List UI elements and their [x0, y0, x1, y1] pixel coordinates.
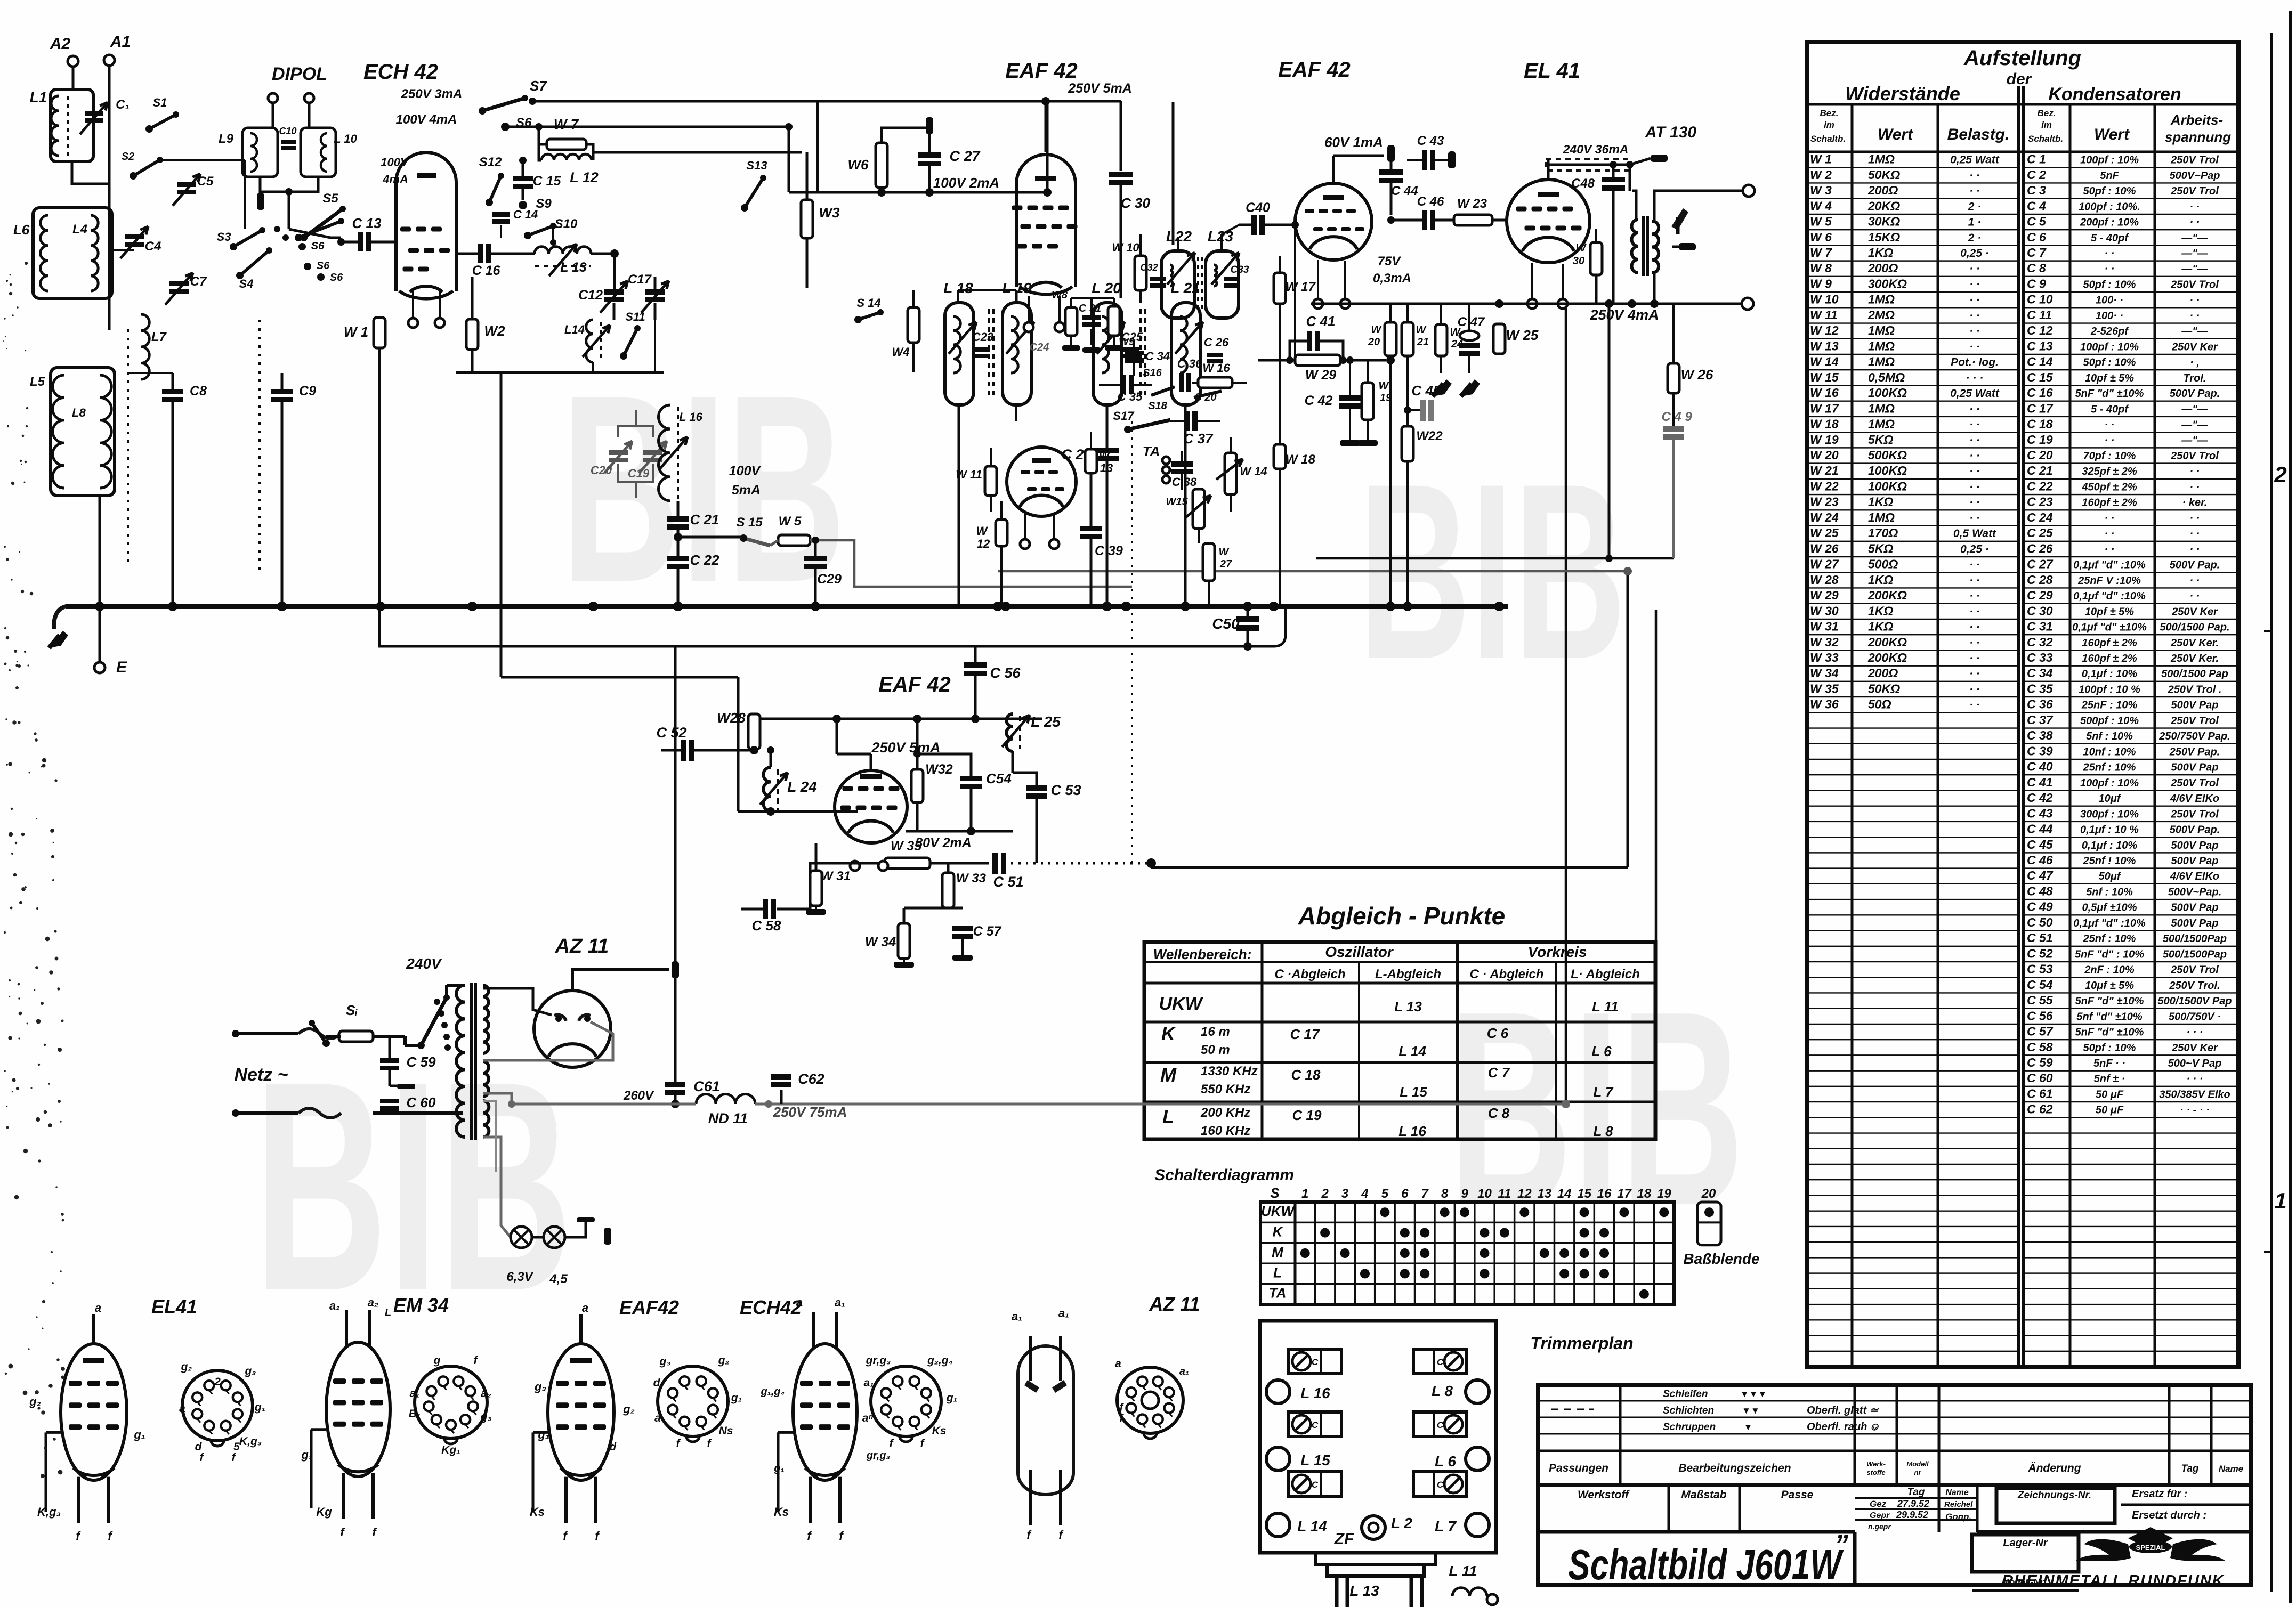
svg-text:EM 34: EM 34	[393, 1294, 449, 1316]
svg-text:0,25 Watt: 0,25 Watt	[1950, 154, 2000, 166]
svg-text:W8: W8	[1052, 289, 1068, 301]
wire	[957, 290, 959, 303]
svg-text:50 μF: 50 μF	[2096, 1089, 2124, 1100]
trimmer C4	[125, 234, 144, 239]
wire anode rail	[754, 718, 1042, 720]
svg-text:500/1500 Pap: 500/1500 Pap	[2161, 668, 2228, 680]
dial lamp 2	[544, 1227, 565, 1248]
svg-text:W 33: W 33	[1810, 651, 1839, 664]
svg-text:10pf ± 5%: 10pf ± 5%	[2085, 372, 2134, 384]
svg-text:C 37: C 37	[1184, 431, 1214, 447]
svg-text:ND 11: ND 11	[708, 1110, 748, 1126]
svg-text:· ·: · ·	[1969, 465, 1980, 477]
terminal blob	[926, 117, 933, 134]
svg-text:5mA: 5mA	[732, 483, 761, 498]
svg-text:500/750V ·: 500/750V ·	[2169, 1011, 2221, 1022]
svg-text:L8: L8	[72, 406, 86, 419]
svg-text:7: 7	[1421, 1187, 1429, 1201]
svg-text:1MΩ: 1MΩ	[1868, 293, 1895, 306]
trimmer C5	[177, 182, 196, 187]
tube pins	[1313, 299, 1323, 309]
svg-text:4/6V ElKo: 4/6V ElKo	[2170, 871, 2219, 882]
svg-text:Schaltb.: Schaltb.	[1810, 134, 1846, 144]
svg-text:0,3mA: 0,3mA	[1373, 271, 1411, 286]
svg-text:C24: C24	[1030, 342, 1049, 353]
svg-text:ECH 42: ECH 42	[363, 60, 438, 84]
svg-text:50μf: 50μf	[2099, 871, 2122, 882]
svg-text:C · Abgleich: C · Abgleich	[1469, 967, 1543, 981]
resistor W24	[1435, 324, 1447, 356]
svg-text:W 17: W 17	[1810, 401, 1839, 415]
svg-text:0,25 ·: 0,25 ·	[1960, 247, 1989, 259]
svg-text:10pf ± 5%: 10pf ± 5%	[2085, 606, 2134, 618]
svg-text:W 13: W 13	[1810, 339, 1839, 353]
svg-text:80V 2mA: 80V 2mA	[915, 835, 972, 850]
svg-text:100· ·: 100· ·	[2096, 310, 2123, 322]
trimmer C7	[169, 281, 189, 286]
svg-text:L 20: L 20	[1092, 280, 1121, 296]
svg-text:W 33: W 33	[956, 871, 987, 886]
wire	[72, 161, 109, 184]
svg-text:g₂,g₄: g₂,g₄	[927, 1354, 953, 1367]
feedback line	[1316, 557, 1674, 560]
capacitor C37	[1184, 411, 1190, 431]
svg-text:9: 9	[1461, 1187, 1468, 1201]
svg-text:L 7: L 7	[1593, 1084, 1614, 1100]
svg-text:· ·: · ·	[2105, 419, 2115, 431]
terminal B+ blob	[672, 961, 679, 978]
switch S2	[130, 172, 137, 180]
capacitor C52	[681, 740, 686, 761]
svg-text:500V~Pap.: 500V~Pap.	[2168, 886, 2222, 898]
svg-text:Tag: Tag	[2181, 1463, 2198, 1474]
svg-text:C 37: C 37	[2027, 713, 2054, 727]
terminal blob	[257, 193, 264, 210]
coupling core dashed	[988, 309, 990, 400]
svg-text:29.9.52: 29.9.52	[1896, 1509, 1928, 1520]
svg-text:500V Pap.: 500V Pap.	[2170, 388, 2220, 400]
dipole terminal	[304, 93, 314, 103]
capacitor C36	[1179, 373, 1184, 392]
svg-text:L: L	[385, 1307, 391, 1319]
svg-text:1KΩ: 1KΩ	[1868, 495, 1893, 509]
svg-text:SPEZIAL: SPEZIAL	[2136, 1544, 2165, 1552]
svg-text:50Ω: 50Ω	[1868, 697, 1891, 711]
svg-text:g₁: g₁	[731, 1392, 742, 1404]
svg-text:C 21: C 21	[690, 512, 719, 527]
svg-text:S18: S18	[1148, 400, 1167, 412]
contacts S6	[298, 243, 306, 250]
ZF trimmer	[1362, 1516, 1385, 1539]
svg-text:1: 1	[2274, 1188, 2286, 1213]
svg-text:C 7: C 7	[1488, 1065, 1510, 1081]
switch S1 cluster	[295, 234, 302, 241]
svg-text:C 44: C 44	[1391, 184, 1418, 198]
resistor W10	[1135, 256, 1146, 290]
svg-text:W 27: W 27	[1810, 557, 1839, 571]
svg-text:W 1: W 1	[1810, 152, 1832, 166]
svg-text:250V Trol: 250V Trol	[2170, 279, 2219, 290]
svg-text:g₂: g₂	[29, 1395, 41, 1408]
svg-text:250V Trol.: 250V Trol.	[2169, 980, 2220, 992]
svg-text:BIB: BIB	[561, 340, 846, 638]
svg-text:W 14: W 14	[1810, 355, 1839, 369]
wire oscillator loop	[591, 253, 615, 255]
svg-text:70pf : 10%: 70pf : 10%	[2083, 450, 2136, 462]
wire choke feed gray	[483, 1093, 696, 1104]
svg-text:W 3: W 3	[1810, 183, 1832, 197]
svg-text:C4: C4	[145, 239, 161, 254]
svg-text:500/1500 Pap.: 500/1500 Pap.	[2160, 622, 2229, 634]
svg-text:C 3: C 3	[2027, 183, 2046, 197]
svg-text:Passungen: Passungen	[1549, 1462, 1608, 1474]
svg-text:C 35: C 35	[2027, 681, 2054, 695]
svg-text:250V Ker.: 250V Ker.	[2170, 637, 2219, 649]
svg-text:S 15: S 15	[736, 515, 763, 530]
svg-text:S5: S5	[322, 191, 338, 206]
svg-text:· ·: · ·	[1969, 683, 1980, 695]
IF transformer L20	[1093, 303, 1122, 405]
svg-text:C 23: C 23	[2027, 495, 2053, 509]
capacitor C45 gray	[1420, 400, 1426, 421]
potentiometer W14	[1225, 453, 1236, 494]
svg-text:S6: S6	[317, 260, 330, 272]
svg-text:C19: C19	[628, 467, 650, 480]
svg-text:AZ 11: AZ 11	[1149, 1293, 1200, 1315]
resistor W31	[810, 871, 822, 906]
svg-text:16: 16	[1597, 1187, 1612, 1201]
power transformer T primary	[456, 985, 465, 1137]
svg-text:500V Pap: 500V Pap	[2171, 918, 2219, 929]
svg-text:W 19: W 19	[1810, 433, 1839, 447]
dial lamp 1	[511, 1227, 532, 1248]
svg-text:L 11: L 11	[1592, 999, 1619, 1014]
svg-text:5nF: 5nF	[2100, 170, 2119, 182]
svg-text:g₁: g₁	[773, 1463, 784, 1474]
svg-text:W 23: W 23	[1810, 495, 1839, 509]
svg-text:200 KHz: 200 KHz	[1200, 1106, 1250, 1120]
svg-text:C 58: C 58	[752, 918, 781, 934]
resistor W33	[942, 873, 954, 908]
svg-text:60V 1mA: 60V 1mA	[1324, 134, 1383, 150]
resistor W30	[1590, 242, 1602, 275]
capacitor C38	[1171, 461, 1193, 467]
resistor W17	[1274, 273, 1286, 304]
svg-text:21: 21	[1417, 336, 1429, 348]
svg-text:200KΩ: 200KΩ	[1867, 588, 1907, 602]
capacitor C44	[1390, 162, 1393, 169]
capacitor C53	[1026, 785, 1047, 791]
ganged dashed line TA	[1131, 421, 1133, 869]
power transformer core	[470, 983, 473, 1140]
svg-text:L 13: L 13	[1349, 1582, 1379, 1599]
wire leg right	[1410, 1576, 1413, 1607]
svg-text:· ·: · ·	[2190, 217, 2200, 229]
svg-text:C 47: C 47	[2027, 869, 2054, 882]
svg-text:5nf "d" ±10%: 5nf "d" ±10%	[2076, 1011, 2143, 1022]
svg-text:a₁: a₁	[863, 1377, 874, 1389]
svg-text:C 20: C 20	[2027, 448, 2053, 462]
capacitor C41	[1307, 331, 1312, 351]
tube pins	[850, 861, 860, 871]
svg-text:1KΩ: 1KΩ	[1868, 246, 1893, 259]
svg-text:gr,g₃: gr,g₃	[866, 1450, 891, 1462]
svg-text:Belastg.: Belastg.	[1947, 126, 2010, 143]
svg-text:4: 4	[1361, 1187, 1368, 1201]
chassis ground lamp	[577, 1217, 595, 1222]
svg-text:· ·: · ·	[2190, 543, 2200, 555]
svg-text:11: 11	[1498, 1187, 1511, 1201]
svg-text:0,1μf "d" :10%: 0,1μf "d" :10%	[2073, 590, 2146, 602]
capacitor C28	[1106, 405, 1109, 448]
trimmer C32	[1150, 277, 1166, 281]
svg-text:W 2: W 2	[1810, 168, 1832, 182]
svg-text:250V Ker.: 250V Ker.	[2170, 653, 2219, 664]
svg-text:S13: S13	[746, 159, 767, 172]
svg-text:0,1μf : 10%: 0,1μf : 10%	[2082, 840, 2138, 851]
svg-text:W32: W32	[925, 762, 953, 777]
svg-text:AZ 11: AZ 11	[555, 935, 609, 957]
svg-text:W 30: W 30	[1810, 604, 1839, 618]
svg-text:200Ω: 200Ω	[1867, 666, 1898, 680]
svg-text:W 34: W 34	[1810, 666, 1839, 680]
svg-text:▼: ▼	[1744, 1422, 1753, 1432]
wire	[1653, 273, 1656, 304]
wire S5 to C13	[300, 234, 308, 241]
svg-text:S9: S9	[536, 197, 552, 211]
svg-text:C 6: C 6	[1487, 1025, 1509, 1041]
svg-text:· ·: · ·	[1969, 434, 1980, 447]
svg-text:0,1μf "d" :10%: 0,1μf "d" :10%	[2073, 918, 2146, 929]
svg-text:C 22: C 22	[2027, 479, 2053, 493]
resistor W11	[985, 466, 997, 496]
capacitor C51	[992, 853, 998, 874]
svg-text:—"—: —"—	[2181, 326, 2208, 337]
svg-text:S11: S11	[625, 310, 645, 323]
oscillator bottom rail	[456, 371, 664, 374]
gray padder block C20 C19	[609, 450, 628, 455]
svg-text:200KΩ: 200KΩ	[1867, 635, 1907, 649]
svg-text:160 KHz: 160 KHz	[1201, 1124, 1250, 1138]
svg-text:· ·: · ·	[2190, 310, 2200, 322]
tube ECH42	[396, 152, 456, 291]
tube socket AZ11 top view	[1117, 1367, 1183, 1433]
svg-text:g₁,g₄: g₁,g₄	[760, 1386, 785, 1398]
antenna terminal A1	[104, 55, 115, 66]
coil L7	[141, 314, 149, 379]
resistor W1 feed	[378, 348, 381, 646]
svg-text:C 25: C 25	[2027, 526, 2054, 540]
wire grid row	[738, 810, 858, 813]
resistor W2	[466, 319, 478, 350]
svg-text:L 13: L 13	[1394, 999, 1422, 1014]
switch S11	[620, 352, 627, 360]
tube EL41 side view	[61, 1344, 127, 1480]
svg-text:C 43: C 43	[2027, 806, 2053, 820]
wire	[1220, 234, 1223, 251]
coil L24	[770, 750, 772, 767]
svg-text:W 11: W 11	[1810, 308, 1838, 322]
svg-text:M: M	[1160, 1064, 1177, 1086]
svg-text:g₃: g₃	[480, 1411, 492, 1423]
resistor W27	[1203, 543, 1215, 581]
svg-text:Gepr: Gepr	[1870, 1511, 1890, 1520]
svg-text:500pf : 10%: 500pf : 10%	[2080, 715, 2139, 727]
svg-text:50pf : 10%: 50pf : 10%	[2083, 279, 2136, 290]
svg-text:C 53: C 53	[2027, 962, 2053, 976]
svg-text:C 61: C 61	[2027, 1086, 2053, 1100]
svg-text:d: d	[653, 1377, 661, 1389]
svg-text:W 31: W 31	[1810, 620, 1839, 634]
svg-text:n.gepr: n.gepr	[1868, 1522, 1891, 1531]
svg-text:im: im	[1824, 120, 1834, 130]
svg-text:450pf ± 2%: 450pf ± 2%	[2081, 481, 2137, 493]
capacitor C49 gray	[1663, 426, 1684, 432]
IF transformer L19	[1003, 303, 1031, 405]
svg-text:C: C	[1312, 1357, 1319, 1367]
svg-text:250V Trol: 250V Trol	[2170, 777, 2219, 789]
resistor W23	[1454, 215, 1492, 225]
svg-text:1330 KHz: 1330 KHz	[1201, 1064, 1258, 1078]
capacitor C14	[492, 212, 510, 217]
svg-text:W 5: W 5	[1810, 215, 1832, 229]
svg-text:C 21: C 21	[2027, 464, 2053, 477]
svg-text:W 28: W 28	[1810, 573, 1839, 587]
svg-text:C 52: C 52	[656, 725, 686, 741]
svg-text:15: 15	[1577, 1187, 1591, 1201]
wire audio line to output	[1151, 866, 1628, 869]
svg-text:L 15: L 15	[1400, 1084, 1427, 1100]
svg-text:1MΩ: 1MΩ	[1868, 339, 1895, 353]
svg-text:W 25: W 25	[1810, 526, 1839, 540]
svg-text:W 35: W 35	[891, 839, 922, 854]
wire grid link	[1015, 290, 1018, 303]
svg-text:Trimmerplan: Trimmerplan	[1530, 1334, 1633, 1353]
svg-text:g: g	[433, 1354, 441, 1367]
output transformer AT130	[1632, 220, 1639, 273]
capacitor C27	[928, 134, 931, 152]
wire leg L13	[1335, 1576, 1339, 1607]
svg-text:0,5μf ±10%: 0,5μf ±10%	[2082, 902, 2137, 914]
svg-text:1KΩ: 1KΩ	[1868, 604, 1893, 618]
svg-text:DIPOL: DIPOL	[272, 64, 327, 84]
svg-text:5nF · ·: 5nF · ·	[2093, 1058, 2125, 1069]
capacitor C47 elko	[1460, 331, 1479, 340]
svg-text:5nF "d" ±10%: 5nF "d" ±10%	[2075, 995, 2144, 1007]
sheet edge lines	[2270, 33, 2273, 1592]
svg-text:10nf : 10%: 10nf : 10%	[2083, 746, 2136, 758]
chassis arrow	[49, 631, 68, 648]
svg-text:· ker.: · ker.	[2182, 497, 2208, 509]
svg-text:5nF "d" ±10%: 5nF "d" ±10%	[2075, 1027, 2144, 1038]
svg-text:Ns: Ns	[719, 1425, 733, 1437]
trimmer C17 (left column)	[1288, 1472, 1341, 1496]
svg-text:C 4 9: C 4 9	[1661, 410, 1692, 424]
svg-text:2: 2	[2274, 462, 2286, 487]
svg-text:W 1: W 1	[344, 324, 368, 340]
svg-text:Oberfl. glatt ≃: Oberfl. glatt ≃	[1807, 1405, 1879, 1416]
svg-text:L 10: L 10	[334, 132, 357, 145]
svg-text:19: 19	[1657, 1187, 1671, 1201]
svg-text:a₂: a₂	[368, 1296, 379, 1309]
svg-text:W 26: W 26	[1681, 367, 1713, 383]
svg-text:M: M	[1272, 1244, 1284, 1260]
chassis bus line	[66, 604, 1508, 609]
svg-text:10μf ± 5%: 10μf ± 5%	[2085, 980, 2134, 992]
svg-text:W 18: W 18	[1286, 452, 1316, 467]
svg-text:—"—: —"—	[2181, 419, 2208, 431]
svg-text:Schruppen: Schruppen	[1663, 1422, 1716, 1433]
svg-text:W 29: W 29	[1810, 588, 1839, 602]
svg-text:L 16: L 16	[1398, 1123, 1426, 1139]
svg-text:C 44: C 44	[2027, 822, 2053, 836]
svg-text:27: 27	[1219, 558, 1232, 570]
coil L13	[535, 247, 591, 254]
coil hole L14	[1266, 1513, 1290, 1537]
svg-text:C61: C61	[693, 1078, 720, 1094]
svg-text:RHEINMETALL RUNDFUNK: RHEINMETALL RUNDFUNK	[2002, 1572, 2225, 1589]
resistor W22	[1402, 426, 1413, 461]
component table Aufstellung der Widerstaende/Kondensatoren	[1807, 42, 2238, 1367]
coil L14 with core	[586, 320, 593, 362]
wire	[532, 1236, 544, 1239]
svg-text:1 ·: 1 ·	[1968, 216, 1982, 229]
svg-text:250V Trol: 250V Trol	[2170, 450, 2219, 462]
svg-text:· ·: · ·	[1969, 450, 1980, 462]
wire B+ from tube	[572, 970, 669, 991]
coil hole L7	[1466, 1513, 1489, 1537]
capacitor C22	[677, 530, 680, 556]
svg-text:Kg₁: Kg₁	[441, 1444, 460, 1456]
svg-text:1: 1	[1301, 1187, 1308, 1201]
connector tongue below trimmer plan	[1316, 1553, 1435, 1564]
svg-text:C 12: C 12	[2027, 323, 2053, 337]
trimmer C19 (left column)	[1288, 1349, 1341, 1374]
svg-text:C 60: C 60	[407, 1094, 436, 1110]
svg-text:W 16: W 16	[1810, 386, 1839, 400]
svg-text:C 14: C 14	[513, 208, 538, 221]
svg-text:550 KHz: 550 KHz	[1201, 1082, 1250, 1097]
resistor W16	[1198, 377, 1232, 388]
svg-text:Name: Name	[2219, 1464, 2243, 1474]
svg-text:L9: L9	[219, 132, 234, 146]
svg-text:g₁: g₁	[537, 1428, 549, 1441]
switch mains	[322, 1040, 330, 1047]
tube ECH42 pins	[408, 318, 418, 328]
capacitor C62	[780, 1090, 783, 1104]
svg-text:5nf : 10%: 5nf : 10%	[2086, 731, 2133, 742]
svg-text:C 4: C 4	[2027, 199, 2046, 213]
svg-text:1KΩ: 1KΩ	[1868, 620, 1893, 634]
svg-text:W 35: W 35	[1810, 681, 1839, 695]
svg-text:50 μF: 50 μF	[2096, 1105, 2124, 1116]
switch S14	[854, 316, 862, 323]
svg-text:K: K	[1273, 1224, 1284, 1240]
tube pins	[1527, 299, 1537, 309]
dipole coil L9	[242, 128, 278, 177]
svg-text:Kondensatoren: Kondensatoren	[2048, 84, 2181, 104]
svg-text:Wert: Wert	[2094, 126, 2130, 143]
capacitor C43	[1422, 150, 1427, 170]
ground arrow	[1461, 379, 1480, 396]
svg-text:C 18: C 18	[2027, 417, 2053, 431]
capacitor C30	[1109, 172, 1133, 177]
svg-text:Gez: Gez	[1870, 1499, 1887, 1509]
svg-text:· ,: · ,	[2190, 357, 2200, 369]
svg-text:a: a	[1115, 1358, 1121, 1370]
svg-text:240V: 240V	[406, 955, 442, 972]
svg-text:L7: L7	[151, 330, 167, 344]
